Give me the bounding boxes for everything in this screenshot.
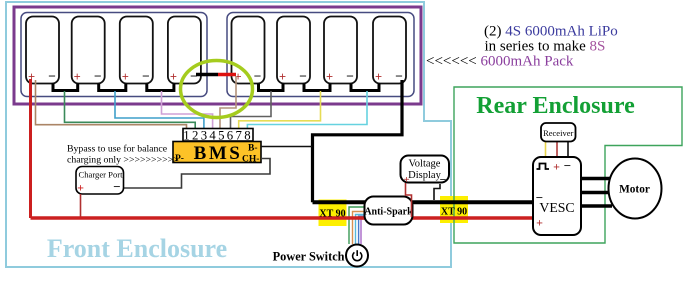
cell 7 (324, 17, 357, 85)
BMS B- wire (261, 146, 312, 148)
pack junction link red half (218, 73, 236, 77)
balance wire 2 green (65, 91, 196, 129)
battery pack border (14, 7, 421, 104)
voltage display + wire (406, 183, 412, 217)
svg-text:3: 3 (201, 129, 207, 143)
svg-text:−: − (440, 173, 447, 187)
svg-text:7: 7 (235, 129, 242, 143)
svg-text:+: + (553, 160, 560, 174)
svg-text:Rear Enclosure: Rear Enclosure (476, 93, 635, 119)
svg-text:+: + (326, 70, 333, 84)
svg-text:in series to make 8S: in series to make 8S (485, 38, 606, 54)
svg-text:−: − (299, 69, 307, 84)
svg-text:charging only >>>>>>>>>>: charging only >>>>>>>>>> (67, 154, 179, 165)
svg-text:−: − (564, 158, 571, 173)
svg-text:Motor: Motor (619, 184, 650, 196)
svg-text:<<<<<< 6000mAh Pack: <<<<<< 6000mAh Pack (426, 54, 574, 70)
balance wire 3 blue (115, 91, 204, 129)
cell 3 (120, 17, 153, 85)
balance connector 1-8 (183, 129, 253, 143)
4S pack 2 border (227, 13, 414, 97)
receiver wire black (567, 142, 569, 163)
BMS unit (173, 142, 261, 165)
svg-text:BMS: BMS (194, 143, 243, 164)
XT90 connector 1 (319, 200, 347, 227)
svg-text:+: + (536, 216, 543, 230)
svg-text:+: + (403, 174, 409, 186)
motor phase wire 3 (581, 204, 612, 207)
svg-text:Anti-Spark: Anti-Spark (364, 207, 413, 218)
cell 2 (72, 17, 105, 85)
svg-text:(2) 4S 6000mAh LiPo: (2) 4S 6000mAh LiPo (484, 23, 618, 39)
svg-text:4: 4 (209, 129, 216, 143)
svg-text:Power Switch: Power Switch (273, 250, 345, 264)
power switch wire blue (359, 216, 368, 244)
balance wire 6 gray (231, 91, 272, 129)
svg-text:Display: Display (408, 170, 441, 181)
svg-text:Bypass to use for balance: Bypass to use for balance (67, 144, 168, 155)
voltage display (401, 156, 450, 187)
svg-text:+: + (279, 70, 286, 84)
BMS CH- wire to charger port (124, 159, 271, 189)
charger port + wire (80, 194, 82, 218)
motor (609, 159, 662, 219)
main negative bus (313, 200, 536, 204)
power switch (346, 245, 368, 267)
svg-text:+: + (122, 70, 129, 84)
svg-text:8: 8 (244, 129, 250, 143)
svg-text:B-: B- (248, 144, 258, 154)
svg-text:−: − (94, 69, 102, 84)
svg-text:6: 6 (227, 129, 234, 143)
svg-text:−: − (48, 69, 56, 84)
svg-text:VESC: VESC (539, 200, 574, 215)
svg-text:+: + (375, 70, 382, 84)
receiver (541, 123, 576, 142)
svg-text:Voltage: Voltage (409, 159, 441, 170)
voltage display - wire (434, 184, 440, 200)
svg-text:Receiver: Receiver (543, 128, 573, 138)
svg-text:+: + (74, 70, 81, 84)
motor phase wire 2 (581, 191, 612, 194)
balance wire 8 cyan (247, 91, 367, 129)
svg-text:−: − (113, 179, 120, 194)
balance wire 5 tan (220, 76, 236, 129)
svg-text:+: + (170, 70, 177, 84)
series link cells 2-3 (99, 84, 126, 91)
rear enclosure (454, 87, 682, 243)
cell 6 (277, 17, 310, 85)
balance wire 1 brown (36, 80, 187, 129)
series link cells 6-7 (304, 84, 330, 91)
svg-text:XT 90: XT 90 (441, 207, 467, 218)
svg-text:5: 5 (218, 129, 224, 143)
green ellipse highlight (181, 61, 253, 118)
svg-text:Charger Port: Charger Port (79, 170, 124, 180)
svg-text:−: − (254, 69, 262, 84)
series link cells 1-2 (53, 84, 78, 91)
svg-text:Front Enclosure: Front Enclosure (47, 234, 227, 263)
svg-text:1: 1 (183, 129, 189, 143)
svg-text:XT 90: XT 90 (319, 209, 345, 220)
main negative black wire from cell 8 (313, 80, 403, 202)
series link cells 3-4 (147, 84, 174, 91)
balance wire 4 pink (162, 91, 213, 129)
series link cells 7-8 (351, 84, 379, 91)
4S pack 1 border (21, 13, 207, 97)
motor phase wire 1 (581, 177, 612, 180)
receiver wire red (556, 142, 558, 163)
bypass note (67, 144, 179, 166)
VESC (533, 157, 581, 235)
receiver wire yellow (545, 142, 547, 160)
power switch wire green (349, 207, 366, 244)
cell 1 (26, 17, 59, 85)
charger port (76, 167, 124, 195)
anti-spark switch (364, 197, 413, 225)
svg-text:−: − (142, 69, 150, 84)
cell 8 (373, 17, 406, 85)
svg-text:2: 2 (192, 129, 198, 143)
power switch wire light blue (356, 215, 369, 245)
front enclosure (6, 2, 451, 267)
balance wire 7 yellow (239, 91, 321, 129)
XT90 connector 2 (440, 196, 468, 223)
power switch wire orange (353, 212, 369, 245)
cell 5 (232, 17, 265, 85)
svg-text:+: + (77, 181, 84, 195)
power switch wire violet (361, 219, 368, 244)
svg-text:CH-: CH- (242, 155, 259, 165)
pack junction link black half (196, 73, 218, 77)
svg-text:−: − (346, 69, 354, 84)
main positive bus (31, 216, 536, 219)
cell 4 (168, 17, 201, 85)
main positive red wire from cell 1 (29, 79, 32, 218)
series link cells 5-6 (259, 84, 284, 91)
